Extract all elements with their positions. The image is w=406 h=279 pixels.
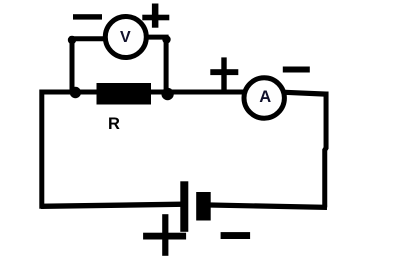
svg-text:A: A xyxy=(259,88,271,106)
svg-text:R: R xyxy=(108,115,120,133)
svg-text:V: V xyxy=(120,29,131,46)
